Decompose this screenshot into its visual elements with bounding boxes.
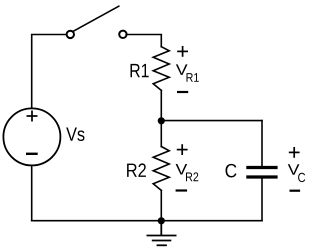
ground symbol bbox=[147, 221, 177, 246]
label C bbox=[226, 164, 237, 178]
node A junction dot bbox=[158, 117, 165, 124]
label VCv bbox=[288, 164, 300, 175]
wire R2 bottom to ground node bbox=[160, 190, 162, 220]
label R1 bbox=[131, 64, 149, 77]
V_C + sign bbox=[289, 147, 300, 158]
V_R2 - sign bbox=[176, 189, 188, 191]
voltage source + sign bbox=[27, 111, 38, 122]
voltage source - sign bbox=[26, 153, 38, 155]
label VR2v bbox=[176, 164, 188, 175]
switch terminal circle left bbox=[67, 31, 74, 38]
V_R1 - sign bbox=[177, 91, 188, 93]
voltage source Vs circle bbox=[3, 108, 60, 165]
label VCs bbox=[298, 173, 305, 182]
label R2 bbox=[127, 163, 146, 176]
resistor R2 zigzag bbox=[153, 147, 169, 191]
wire node A to capacitor branch bbox=[161, 120, 262, 122]
wire capacitor top lead bbox=[261, 121, 263, 166]
wire R1 bottom to R2 top through node A bbox=[160, 90, 162, 146]
switch arm (open) bbox=[73, 6, 118, 31]
wire capacitor bottom lead bbox=[261, 179, 263, 221]
label VR2s bbox=[186, 172, 198, 181]
switch terminal circle right bbox=[119, 31, 126, 38]
label Vs bbox=[66, 128, 84, 141]
wire switch right terminal to R1 top bbox=[126, 35, 161, 47]
wire left rail top (Vs to switch) bbox=[32, 35, 67, 108]
V_C - sign bbox=[290, 190, 301, 192]
V_R2 + sign bbox=[177, 144, 188, 155]
V_R1 + sign bbox=[177, 46, 188, 57]
label VR1v bbox=[176, 64, 188, 75]
resistor R1 zigzag bbox=[153, 47, 169, 91]
node B junction dot (ground node) bbox=[158, 217, 165, 224]
label VR1s bbox=[187, 73, 199, 82]
wire left rail bottom (Vs to bottom rail) bbox=[31, 166, 33, 221]
capacitor C plates bbox=[246, 168, 277, 178]
wire bottom rail bbox=[32, 220, 262, 222]
